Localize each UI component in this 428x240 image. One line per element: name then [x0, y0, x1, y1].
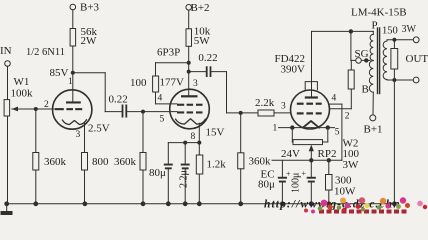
svg-text:RP2: RP2 [318, 148, 337, 160]
svg-text:B+2: B+2 [191, 2, 210, 14]
svg-text:100k: 100k [11, 88, 34, 100]
svg-text:4: 4 [332, 94, 337, 104]
svg-text:2.2k: 2.2k [255, 97, 275, 109]
svg-text:B: B [362, 84, 369, 96]
svg-text:80μ: 80μ [258, 179, 275, 191]
svg-text:85V: 85V [50, 67, 69, 79]
svg-text:100μ: 100μ [291, 173, 302, 193]
svg-text:390V: 390V [281, 64, 306, 76]
svg-text:8: 8 [191, 132, 196, 142]
svg-text:0.22: 0.22 [198, 52, 217, 64]
svg-text:IN: IN [0, 45, 12, 57]
svg-text:5: 5 [160, 115, 165, 125]
svg-text:6P3P: 6P3P [157, 47, 180, 59]
svg-text:SG: SG [355, 48, 369, 60]
svg-text:360k: 360k [249, 156, 272, 168]
svg-text:1: 1 [68, 77, 73, 87]
svg-text:5: 5 [335, 128, 340, 138]
svg-text:0.22: 0.22 [109, 94, 128, 106]
svg-text:10W: 10W [334, 186, 356, 198]
svg-text:100: 100 [130, 77, 147, 89]
svg-text:80μ: 80μ [149, 167, 166, 179]
svg-text:2W: 2W [81, 35, 98, 47]
svg-text:2.2μ: 2.2μ [179, 170, 190, 188]
svg-text:B+3: B+3 [80, 2, 100, 14]
svg-text:3: 3 [281, 102, 286, 112]
svg-text:2: 2 [44, 100, 49, 110]
svg-text:15V: 15V [206, 127, 225, 139]
svg-text:1/2 6N11: 1/2 6N11 [26, 47, 65, 58]
svg-text:360k: 360k [114, 156, 137, 168]
svg-text:3: 3 [193, 79, 198, 89]
svg-text:3W: 3W [402, 24, 417, 35]
svg-text:5W: 5W [194, 35, 211, 47]
svg-text:OUT: OUT [406, 53, 428, 65]
svg-text:177V: 177V [160, 77, 185, 89]
svg-text:3W: 3W [343, 159, 360, 171]
svg-text:360k: 360k [44, 156, 67, 168]
svg-text:3: 3 [76, 130, 81, 140]
svg-text:2: 2 [345, 112, 350, 122]
svg-text:+: + [302, 169, 307, 178]
svg-text:W1: W1 [14, 76, 30, 88]
svg-text:2.5V: 2.5V [88, 123, 110, 135]
svg-text:1: 1 [273, 124, 278, 134]
svg-text:800: 800 [92, 156, 109, 168]
svg-text:150: 150 [382, 26, 398, 37]
svg-text:LM-4K-15B: LM-4K-15B [351, 7, 407, 19]
svg-text:B+1: B+1 [364, 124, 383, 136]
svg-text:4: 4 [158, 94, 163, 104]
svg-text:24V: 24V [281, 148, 300, 160]
svg-text:1.2k: 1.2k [207, 159, 227, 171]
svg-text:P: P [372, 20, 378, 32]
